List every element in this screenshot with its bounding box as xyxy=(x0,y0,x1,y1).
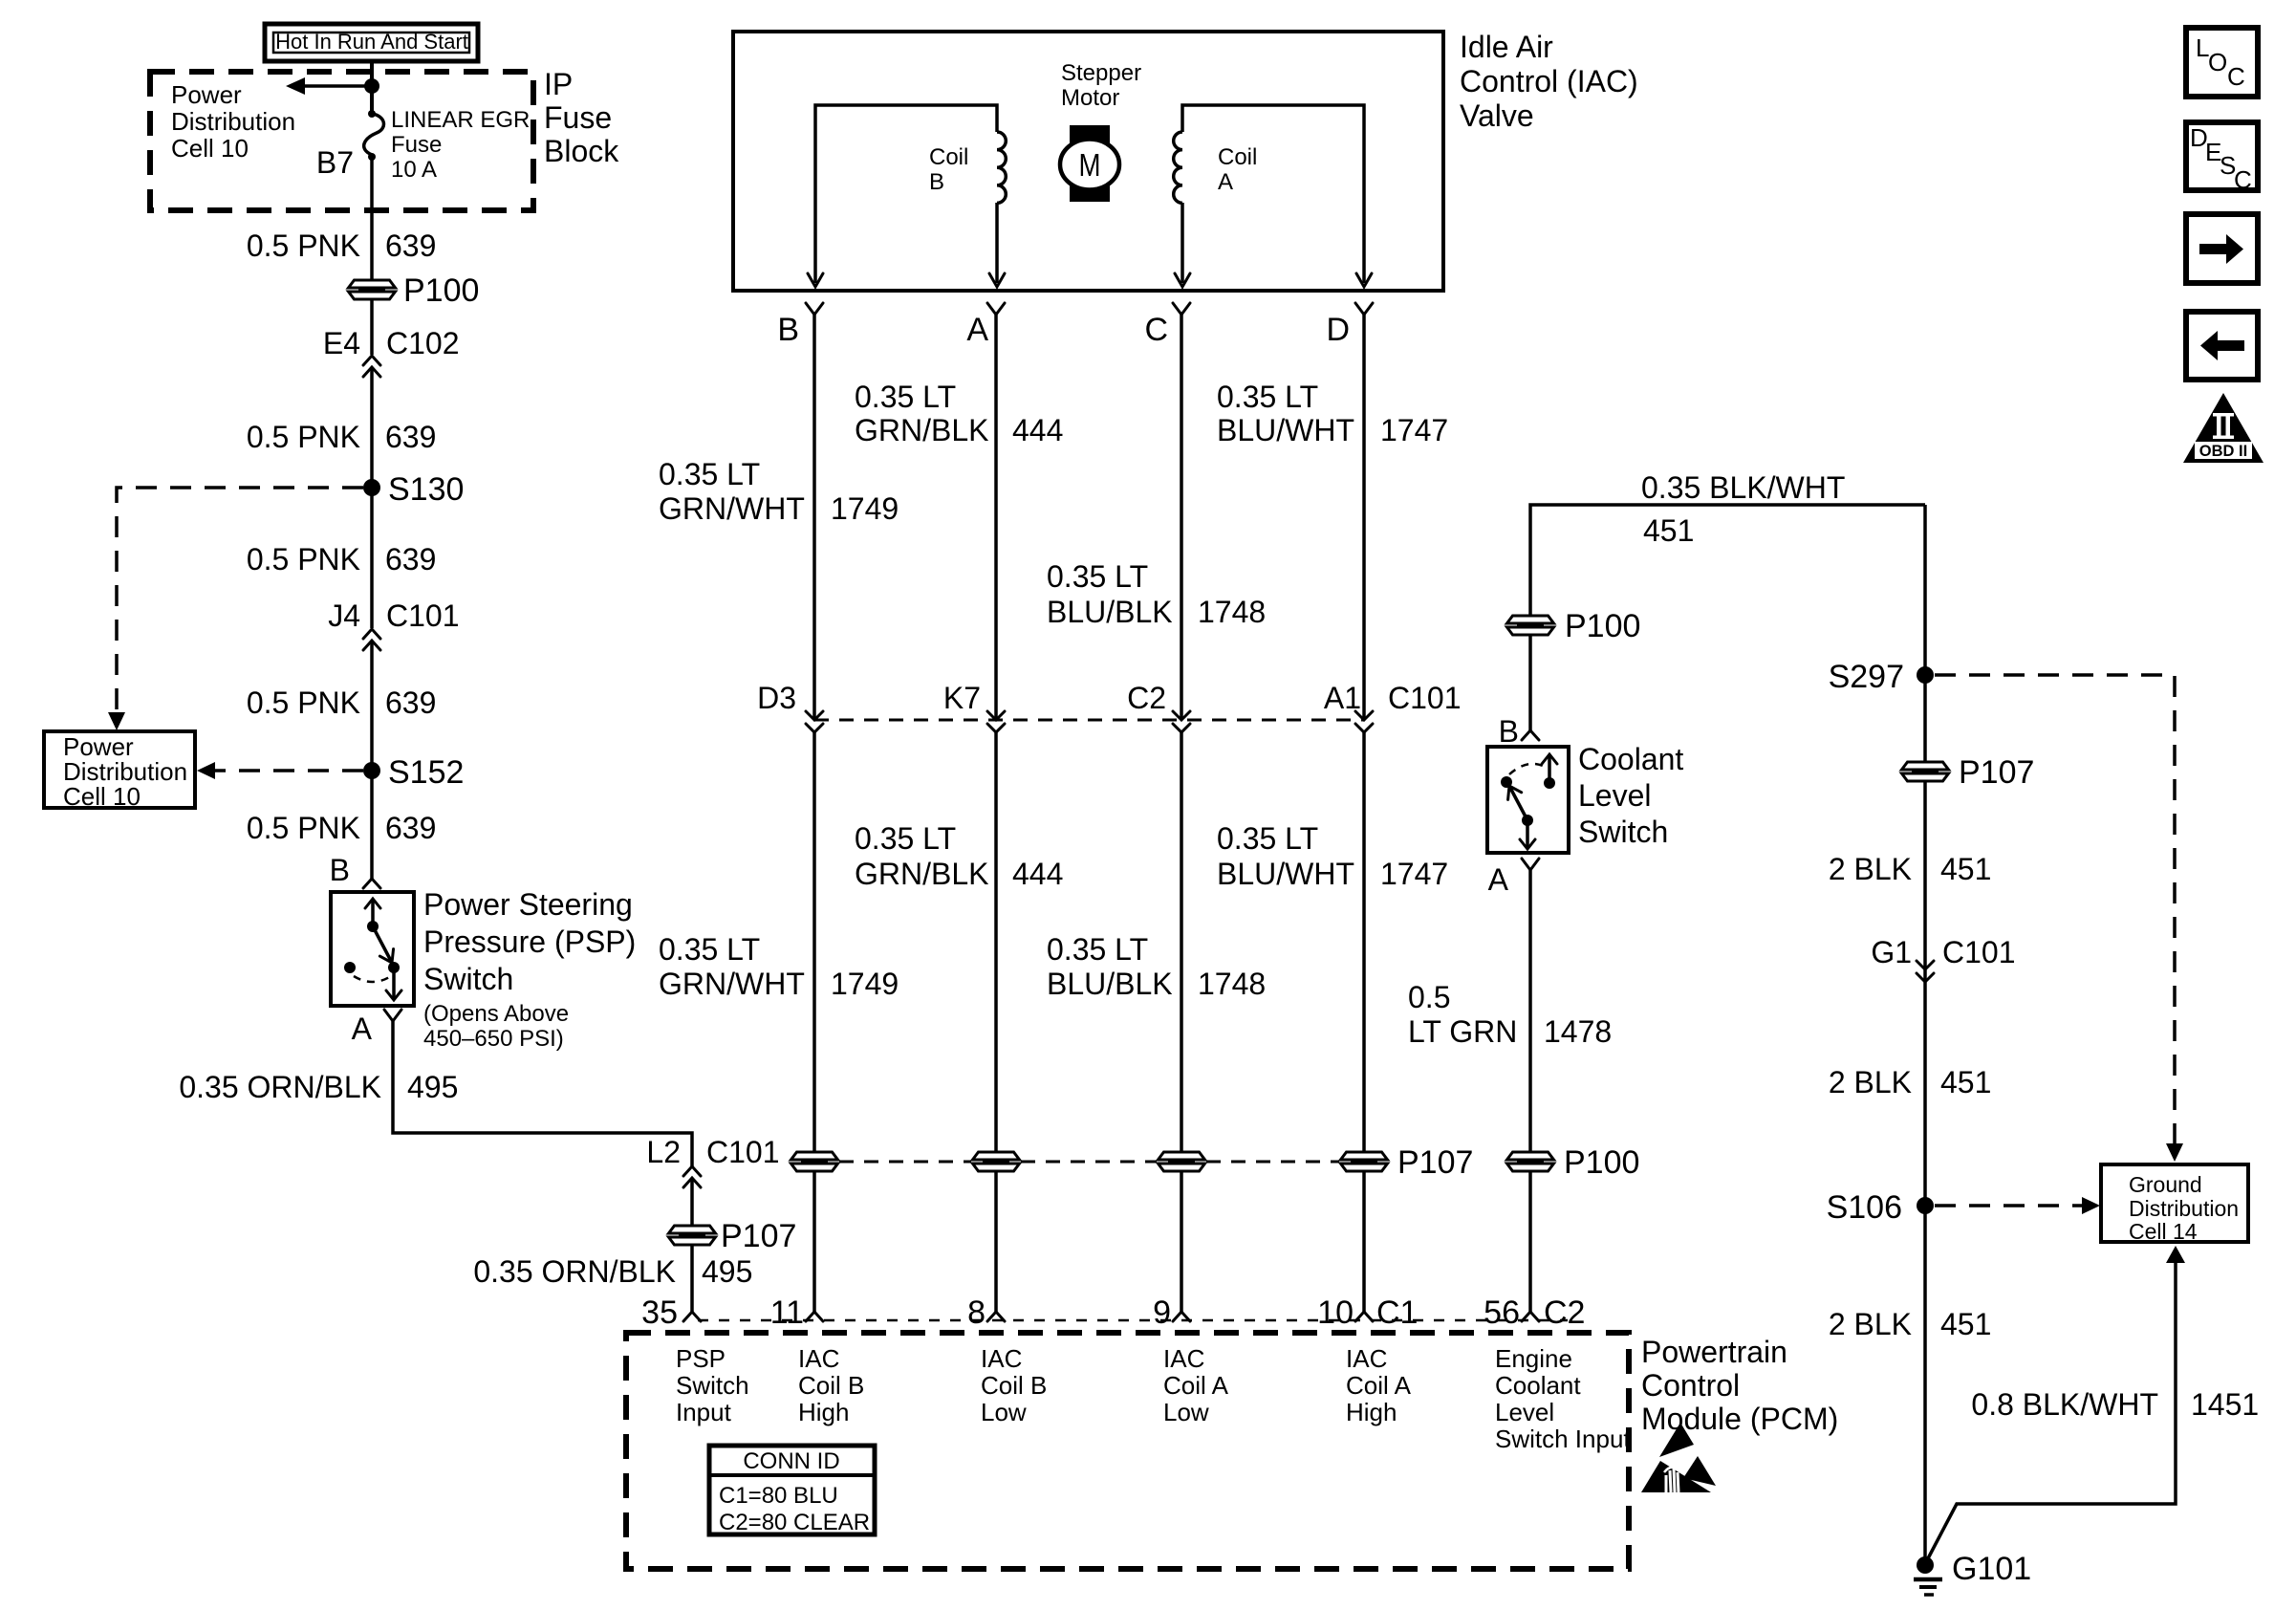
wire label 0.35 BLK/WHT 451 xyxy=(1641,470,1845,548)
svg-text:Switch: Switch xyxy=(1578,815,1668,849)
svg-text:10: 10 xyxy=(1317,1295,1354,1331)
connector grommet P107 on coil A high xyxy=(1341,1144,1474,1181)
svg-text:Coil B: Coil B xyxy=(798,1371,864,1400)
wire: coil B high below C101 xyxy=(812,732,816,1312)
svg-text:11: 11 xyxy=(770,1295,804,1331)
svg-text:C102: C102 xyxy=(386,326,460,360)
svg-text:S297: S297 xyxy=(1829,659,1904,695)
svg-text:0.35 ORN/BLK: 0.35 ORN/BLK xyxy=(473,1254,676,1289)
wire: IAC coil A low (C terminal down) xyxy=(1180,315,1183,719)
ground G101 xyxy=(1914,1551,2031,1595)
svg-text:Control: Control xyxy=(1641,1368,1740,1403)
svg-text:GRN/BLK: GRN/BLK xyxy=(855,857,988,891)
svg-text:Coil: Coil xyxy=(1218,144,1257,170)
svg-text:0.35 ORN/BLK: 0.35 ORN/BLK xyxy=(179,1070,381,1104)
svg-text:Level: Level xyxy=(1495,1398,1554,1426)
connector label J4 C101 xyxy=(328,598,459,633)
wire label 0.8 BLK/WHT 1451 xyxy=(1971,1387,2259,1422)
svg-text:J4: J4 xyxy=(328,598,360,633)
svg-text:LT GRN: LT GRN xyxy=(1408,1014,1517,1049)
svg-text:Coil A: Coil A xyxy=(1163,1371,1229,1400)
connector grommet P100 xyxy=(349,272,480,309)
splice node S297 xyxy=(1829,659,1934,695)
svg-text:Ground: Ground xyxy=(2129,1172,2202,1197)
terminal B of coolant level switch xyxy=(1499,714,1539,749)
svg-text:Control (IAC): Control (IAC) xyxy=(1460,64,1638,98)
svg-text:P100: P100 xyxy=(1564,1144,1639,1181)
Power Distribution Cell 10 label (in fuse block) xyxy=(171,80,295,163)
svg-text:GRN/WHT: GRN/WHT xyxy=(659,967,805,1001)
svg-text:S152: S152 xyxy=(388,754,464,791)
svg-text:C: C xyxy=(1144,312,1168,348)
svg-text:0.5 PNK: 0.5 PNK xyxy=(247,228,360,263)
splice node S106 xyxy=(1827,1189,1934,1226)
coolant level switch internals xyxy=(1501,754,1557,849)
icon box LOC xyxy=(2186,28,2258,97)
svg-text:Coolant: Coolant xyxy=(1578,742,1683,776)
wire: ground branch 0.35 BLK/WHT to G101 xyxy=(1923,505,1927,1558)
connector C101 row labels D3 K7 C2 A1 C101 xyxy=(757,681,1461,715)
dashed reference: S106 to Ground Distribution Cell 14 xyxy=(1935,1197,2100,1214)
connector C102 inline chevrons xyxy=(363,356,380,377)
svg-text:1451: 1451 xyxy=(2191,1387,2259,1422)
fuse value label: LINEAR EGR Fuse 10 A xyxy=(391,107,530,183)
terminal A of PSP switch xyxy=(352,1010,401,1046)
svg-text:GRN/WHT: GRN/WHT xyxy=(659,491,805,526)
svg-text:C: C xyxy=(2234,165,2252,194)
pin label PSP Switch Input xyxy=(676,1344,749,1426)
svg-text:D3: D3 xyxy=(757,681,796,715)
svg-text:C101: C101 xyxy=(1942,935,2016,969)
wire: P100 to C102 xyxy=(370,300,374,355)
svg-text:2 BLK: 2 BLK xyxy=(1829,852,1912,886)
svg-text:Low: Low xyxy=(1163,1398,1209,1426)
wire: coil A high below C101 xyxy=(1362,732,1366,1312)
wire: 0.35 ORN/BLK 495 (PSP A down and right) xyxy=(393,1021,692,1166)
svg-text:9: 9 xyxy=(1153,1295,1171,1331)
svg-text:Cell 14: Cell 14 xyxy=(2129,1219,2198,1244)
svg-text:A: A xyxy=(352,1012,373,1046)
svg-text:P107: P107 xyxy=(1397,1144,1473,1181)
pin 9 chevron xyxy=(1173,1312,1190,1321)
svg-text:S106: S106 xyxy=(1827,1189,1902,1226)
svg-text:Coolant: Coolant xyxy=(1495,1371,1581,1400)
wire label 0.5 LT GRN 1478 xyxy=(1408,980,1612,1049)
svg-text:2 BLK: 2 BLK xyxy=(1829,1307,1912,1341)
svg-text:G1: G1 xyxy=(1871,935,1912,969)
svg-text:Motor: Motor xyxy=(1061,85,1119,111)
svg-text:0.35 LT: 0.35 LT xyxy=(855,821,956,856)
svg-text:Cell 10: Cell 10 xyxy=(63,782,141,811)
stepper motor label xyxy=(1061,60,1141,111)
svg-text:Engine: Engine xyxy=(1495,1344,1572,1373)
svg-text:E4: E4 xyxy=(323,326,360,360)
svg-text:639: 639 xyxy=(385,420,436,454)
svg-text:Switch Input: Switch Input xyxy=(1495,1425,1631,1453)
svg-text:0.35 BLK/WHT: 0.35 BLK/WHT xyxy=(1641,470,1845,505)
terminal B of PSP switch xyxy=(330,853,380,888)
svg-text:A: A xyxy=(1488,862,1509,897)
svg-text:BLU/WHT: BLU/WHT xyxy=(1217,857,1354,891)
icon box DESC xyxy=(2186,122,2258,194)
svg-text:C1: C1 xyxy=(1376,1295,1418,1331)
svg-text:Pressure (PSP): Pressure (PSP) xyxy=(423,925,636,959)
svg-text:IAC: IAC xyxy=(798,1344,839,1373)
wire label 0.35 ORN/BLK 495 xyxy=(179,1070,458,1104)
svg-text:639: 639 xyxy=(385,542,436,577)
svg-text:OBD II: OBD II xyxy=(2199,443,2247,460)
svg-text:BLU/WHT: BLU/WHT xyxy=(1217,413,1354,447)
svg-text:S130: S130 xyxy=(388,471,464,508)
terminal A of coolant level switch xyxy=(1488,859,1539,897)
wire label 0.35 LT GRN/WHT 1749 (lower) xyxy=(659,932,899,1001)
pin 56 chevron xyxy=(1522,1312,1539,1321)
svg-text:C101: C101 xyxy=(706,1135,780,1169)
svg-text:Fuse: Fuse xyxy=(391,132,442,158)
svg-text:D: D xyxy=(1326,312,1350,348)
connector grommet P107 on coil B high xyxy=(791,1152,838,1171)
IAC valve label: Idle Air Control (IAC) Valve xyxy=(1460,30,1638,133)
svg-text:C101: C101 xyxy=(386,598,460,633)
splice node S152 xyxy=(363,754,464,791)
svg-text:(Opens Above: (Opens Above xyxy=(423,1001,569,1027)
svg-text:0.8 BLK/WHT: 0.8 BLK/WHT xyxy=(1971,1387,2158,1422)
wire: IAC coil B low (A terminal down) xyxy=(994,315,998,719)
PCM label: Powertrain Control Module (PCM) xyxy=(1641,1335,1838,1436)
connector grommet P107 on coil B low xyxy=(973,1152,1020,1171)
dashed reference: S130 to Power Distribution Cell 10 xyxy=(108,488,363,730)
svg-text:495: 495 xyxy=(407,1070,458,1104)
IAC valve outline box xyxy=(733,32,1443,291)
svg-text:Idle Air: Idle Air xyxy=(1460,30,1553,64)
svg-text:10 A: 10 A xyxy=(391,157,437,183)
svg-text:56: 56 xyxy=(1484,1295,1520,1331)
pin 10 chevron xyxy=(1355,1312,1373,1321)
svg-text:Cell 10: Cell 10 xyxy=(171,134,249,163)
icon OBD II triangle xyxy=(2183,393,2264,463)
svg-text:0.35 LT: 0.35 LT xyxy=(659,932,760,967)
connector C101 chevrons at C wire xyxy=(1173,711,1190,732)
svg-text:P107: P107 xyxy=(721,1218,796,1254)
svg-text:IP: IP xyxy=(544,67,573,101)
IAC valve terminals B A C D xyxy=(777,303,1373,348)
PCM dashed box xyxy=(626,1333,1629,1569)
wire: 0.8 BLK/WHT 1451 from Ground Distribution box xyxy=(1927,1246,2185,1560)
svg-text:0.5 PNK: 0.5 PNK xyxy=(247,685,360,720)
wire label 0.35 LT GRN/WHT 1749 (upper) xyxy=(659,457,899,526)
svg-text:0.35 LT: 0.35 LT xyxy=(1047,559,1148,594)
fuse terminal label B7 xyxy=(316,145,354,180)
connector grommet P100 (coolant B wire) xyxy=(1507,608,1641,644)
wire label 0.35 LT BLU/BLK 1748 (upper) xyxy=(1047,559,1266,629)
wire: feed from Hot box into fuse block xyxy=(370,61,374,115)
PCM connector interface dashed line xyxy=(698,1319,1568,1322)
svg-text:Coil B: Coil B xyxy=(981,1371,1047,1400)
wire: IAC coil A high (D terminal down) xyxy=(1362,315,1366,719)
Ground Distribution Cell 14 box xyxy=(2101,1164,2248,1244)
connector grommet P107 (PSP wire) xyxy=(669,1218,797,1254)
svg-text:Coil: Coil xyxy=(929,144,968,170)
pin label IAC Coil A High xyxy=(1346,1344,1412,1426)
splice node S130 xyxy=(363,471,464,508)
wire label 0.5 PNK 639 xyxy=(247,811,437,845)
svg-text:C2: C2 xyxy=(1127,681,1166,715)
svg-text:A: A xyxy=(1218,169,1233,195)
pin label Engine Coolant Level Switch Input xyxy=(1495,1344,1631,1453)
wire: C101 to P107 (PSP circuit) xyxy=(690,1178,694,1312)
connector C101 inline chevrons (PSP wire) xyxy=(683,1166,701,1187)
svg-text:IAC: IAC xyxy=(981,1344,1022,1373)
svg-text:450–650 PSI): 450–650 PSI) xyxy=(423,1026,564,1052)
svg-text:1478: 1478 xyxy=(1544,1014,1612,1049)
svg-text:Power Steering: Power Steering xyxy=(423,887,633,922)
connector C101 chevrons at A wire xyxy=(987,711,1005,732)
ESD sensitive device symbol xyxy=(1641,1423,1716,1492)
svg-text:O: O xyxy=(2208,48,2227,76)
svg-text:451: 451 xyxy=(1940,1307,1991,1341)
wire: arrow to power distribution cell 10 xyxy=(286,77,372,95)
svg-text:LINEAR EGR: LINEAR EGR xyxy=(391,107,530,133)
wire label 0.35 LT GRN/BLK 444 (lower) xyxy=(855,821,1063,891)
svg-text:IAC: IAC xyxy=(1346,1344,1387,1373)
svg-text:Level: Level xyxy=(1578,778,1652,813)
svg-text:Distribution: Distribution xyxy=(171,107,295,136)
node: junction to power distribution xyxy=(364,78,379,94)
pin 35 chevron xyxy=(683,1312,701,1321)
wire: 0.5 PNK 639 (C101 to S152) xyxy=(370,641,374,771)
fuse B7 LINEAR EGR 10A xyxy=(364,110,384,161)
dashed reference: S297 to Ground Distribution Cell 14 xyxy=(1935,675,2183,1162)
wire: 0.5 PNK 639 (S152 to PSP switch) xyxy=(370,771,374,879)
connector C101 chevrons at D wire xyxy=(1355,711,1373,732)
icon box arrow left xyxy=(2186,312,2258,380)
svg-text:0.5: 0.5 xyxy=(1408,980,1450,1014)
svg-text:0.35 LT: 0.35 LT xyxy=(1217,380,1318,414)
connector grommet P100 (coolant A wire) xyxy=(1507,1144,1640,1181)
svg-text:Fuse: Fuse xyxy=(544,100,612,135)
svg-text:1747: 1747 xyxy=(1380,857,1448,891)
pin label IAC Coil A Low xyxy=(1163,1344,1229,1426)
svg-text:8: 8 xyxy=(967,1295,986,1331)
coil A of IAC stepper motor xyxy=(1174,105,1372,287)
wire label 0.35 LT BLU/BLK 1748 (lower) xyxy=(1047,932,1266,1001)
svg-text:B7: B7 xyxy=(316,145,354,180)
svg-text:0.5 PNK: 0.5 PNK xyxy=(247,811,360,845)
wire: coil B low below C101 xyxy=(994,732,998,1312)
svg-text:0.35 LT: 0.35 LT xyxy=(855,380,956,414)
coil B label xyxy=(929,144,968,195)
PCM pin numbers 35 11 8 9 10 C1 56 C2 xyxy=(641,1295,1585,1331)
svg-text:High: High xyxy=(1346,1398,1397,1426)
svg-text:Hot In Run And Start: Hot In Run And Start xyxy=(275,30,468,54)
svg-text:A: A xyxy=(966,312,988,348)
connector grommet P107 on coil A low xyxy=(1159,1152,1205,1171)
svg-text:0.35 LT: 0.35 LT xyxy=(659,457,760,491)
wire label 2 BLK 451 xyxy=(1829,1065,1992,1099)
svg-text:Powertrain: Powertrain xyxy=(1641,1335,1787,1369)
svg-text:0.35 LT: 0.35 LT xyxy=(1217,821,1318,856)
svg-text:Distribution: Distribution xyxy=(2129,1196,2239,1221)
wire: 0.35 BLK/WHT 451 (coolant switch B feed) xyxy=(1530,505,1925,730)
coil A label xyxy=(1218,144,1257,195)
svg-text:G101: G101 xyxy=(1952,1551,2031,1587)
pin label IAC Coil B High xyxy=(798,1344,864,1426)
svg-text:444: 444 xyxy=(1012,857,1063,891)
connector grommet P107 row dashed link xyxy=(839,1161,1339,1164)
svg-text:Input: Input xyxy=(676,1398,732,1426)
coil B of IAC stepper motor xyxy=(808,105,1006,287)
svg-text:Stepper: Stepper xyxy=(1061,60,1141,86)
svg-text:451: 451 xyxy=(1940,852,1991,886)
coolant level switch box xyxy=(1487,747,1569,853)
wire label 0.5 PNK 639 xyxy=(247,228,437,263)
svg-text:High: High xyxy=(798,1398,849,1426)
svg-text:451: 451 xyxy=(1940,1065,1991,1099)
connector label E4 C102 xyxy=(323,326,460,360)
connector label G1 C101 xyxy=(1871,935,2015,969)
svg-text:639: 639 xyxy=(385,811,436,845)
svg-text:B: B xyxy=(1499,714,1519,749)
dashed reference: S152 to Power Distribution Cell 10 xyxy=(197,762,363,779)
icon box arrow right xyxy=(2186,214,2258,283)
motor M symbol xyxy=(1060,125,1119,202)
svg-text:0.35 LT: 0.35 LT xyxy=(1047,932,1148,967)
svg-text:Module (PCM): Module (PCM) xyxy=(1641,1402,1838,1436)
connector C101 chevrons (ground branch) xyxy=(1917,961,1934,982)
connector C101 dashed interface line xyxy=(814,719,1364,722)
wire label 0.35 LT BLU/WHT 1747 (upper) xyxy=(1217,380,1448,447)
pin label IAC Coil B Low xyxy=(981,1344,1047,1426)
wire label 2 BLK 451 xyxy=(1829,1307,1992,1341)
svg-text:C1=80 BLU: C1=80 BLU xyxy=(719,1483,838,1509)
wire: 0.5 PNK 639 (C102 to S130) xyxy=(370,367,374,488)
Power Distribution Cell 10 box xyxy=(44,731,195,811)
svg-text:639: 639 xyxy=(385,685,436,720)
wire label 0.35 LT GRN/BLK 444 (upper) xyxy=(855,380,1063,447)
svg-text:Coil A: Coil A xyxy=(1346,1371,1412,1400)
svg-text:PSP: PSP xyxy=(676,1344,726,1373)
wire: 0.5 PNK 639 (S130 to C101) xyxy=(370,488,374,628)
svg-text:CONN ID: CONN ID xyxy=(743,1448,839,1474)
coolant level switch label xyxy=(1578,742,1683,849)
svg-text:GRN/BLK: GRN/BLK xyxy=(855,413,988,447)
svg-text:35: 35 xyxy=(641,1295,678,1331)
svg-text:Low: Low xyxy=(981,1398,1027,1426)
fuse block label: Hot In Run And Start xyxy=(265,24,478,61)
svg-text:0.5 PNK: 0.5 PNK xyxy=(247,542,360,577)
pin 11 chevron xyxy=(806,1312,823,1321)
svg-text:BLU/BLK: BLU/BLK xyxy=(1047,967,1173,1001)
PSP switch box xyxy=(331,892,414,1006)
wire: IAC coil B high (B terminal down) xyxy=(812,315,816,719)
svg-text:P107: P107 xyxy=(1959,754,2034,791)
pin 8 chevron xyxy=(987,1312,1005,1321)
svg-text:1748: 1748 xyxy=(1198,967,1266,1001)
svg-text:444: 444 xyxy=(1012,413,1063,447)
svg-text:L2: L2 xyxy=(646,1135,681,1169)
svg-text:B: B xyxy=(330,853,350,887)
svg-text:1747: 1747 xyxy=(1380,413,1448,447)
wire: 0.5 PNK 639 (fuse to P100) xyxy=(370,157,374,280)
CONN ID table xyxy=(709,1446,875,1535)
connector C101 inline chevrons xyxy=(363,629,380,650)
svg-text:C2: C2 xyxy=(1544,1295,1585,1331)
wire: coil A low below C101 xyxy=(1180,732,1183,1312)
svg-text:451: 451 xyxy=(1643,513,1694,548)
wire label 0.5 PNK 639 xyxy=(247,685,437,720)
svg-text:P100: P100 xyxy=(403,272,479,309)
svg-text:Power: Power xyxy=(171,80,242,109)
svg-text:C101: C101 xyxy=(1388,681,1462,715)
svg-text:1749: 1749 xyxy=(831,967,899,1001)
svg-text:B: B xyxy=(777,312,799,348)
svg-text:2 BLK: 2 BLK xyxy=(1829,1065,1912,1099)
connector label L2 C101 xyxy=(646,1135,779,1169)
svg-text:P100: P100 xyxy=(1565,608,1640,644)
svg-text:Block: Block xyxy=(544,134,619,168)
svg-text:Switch: Switch xyxy=(676,1371,749,1400)
svg-text:Switch: Switch xyxy=(423,962,513,996)
connector C101 chevrons at B wire xyxy=(806,711,823,732)
svg-text:639: 639 xyxy=(385,228,436,263)
connector grommet P107 (ground branch) xyxy=(1902,754,2035,791)
wire label 0.35 ORN/BLK 495 xyxy=(473,1254,752,1289)
svg-text:1748: 1748 xyxy=(1198,595,1266,629)
svg-text:M: M xyxy=(1079,147,1101,183)
IP fuse block dashed box xyxy=(150,72,533,210)
svg-text:0.5 PNK: 0.5 PNK xyxy=(247,420,360,454)
wire label 2 BLK 451 xyxy=(1829,852,1992,886)
svg-text:B: B xyxy=(929,169,944,195)
PSP switch internals xyxy=(344,899,401,1000)
wire label 0.5 PNK 639 xyxy=(247,420,437,454)
svg-text:495: 495 xyxy=(702,1254,752,1289)
svg-text:C: C xyxy=(2227,62,2245,91)
wire label 0.5 PNK 639 xyxy=(247,542,437,577)
svg-text:Valve: Valve xyxy=(1460,98,1534,133)
PSP switch label xyxy=(423,887,636,1052)
svg-text:1749: 1749 xyxy=(831,491,899,526)
svg-text:IAC: IAC xyxy=(1163,1344,1204,1373)
svg-text:K7: K7 xyxy=(943,681,981,715)
wire: 0.5 LT GRN 1478 (coolant A to PCM) xyxy=(1528,870,1532,1312)
svg-text:C2=80 CLEAR: C2=80 CLEAR xyxy=(719,1510,870,1535)
svg-text:BLU/BLK: BLU/BLK xyxy=(1047,595,1173,629)
wire label 0.35 LT BLU/WHT 1747 (lower) xyxy=(1217,821,1448,891)
IP Fuse Block label xyxy=(544,67,619,168)
